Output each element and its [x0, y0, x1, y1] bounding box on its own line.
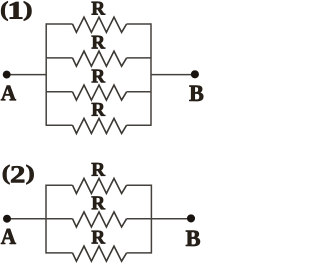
left bus wire (circuit 2): [45, 185, 47, 254]
label R branch 4 (circuit 1): [92, 103, 106, 116]
label node B (circuit 2): [186, 231, 200, 246]
wire branch 3 left lead (circuit 2): [46, 252, 73, 254]
resistor R branch 3 (circuit 1): [73, 85, 127, 100]
wire branch 3 right lead (circuit 1): [127, 91, 151, 93]
wire branch 1 right lead (circuit 2): [127, 184, 152, 186]
wire right bus to node B (circuit 1): [151, 74, 195, 76]
label R branch 2 (circuit 2): [92, 197, 106, 210]
wire node A to left bus (circuit 1): [7, 74, 47, 76]
label R branch 1 (circuit 1): [92, 2, 106, 15]
label R branch 3 (circuit 2): [92, 231, 106, 244]
wire branch 1 right lead (circuit 1): [127, 23, 151, 25]
label (2): [3, 165, 10, 184]
wire branch 4 right lead (circuit 1): [127, 124, 151, 126]
wire branch 1 left lead (circuit 1): [46, 23, 72, 25]
resistor R branch 2 (circuit 2): [73, 212, 127, 227]
node B terminal dot (circuit 1): [191, 70, 199, 78]
wire branch 3 right lead (circuit 2): [127, 252, 152, 254]
label node A (circuit 2): [1, 229, 16, 244]
label R branch 1 (circuit 2): [92, 163, 106, 176]
left bus wire (circuit 1): [45, 23, 47, 126]
label node A (circuit 1): [1, 86, 16, 101]
wire branch 2 right lead (circuit 2): [127, 218, 191, 220]
node A terminal dot (circuit 1): [3, 71, 11, 79]
right bus wire (circuit 2): [150, 185, 152, 254]
right bus wire (circuit 1): [150, 23, 152, 126]
label node B (circuit 1): [189, 86, 203, 101]
wire branch 2 left lead (circuit 1): [46, 57, 72, 59]
wire branch 4 left lead (circuit 1): [46, 124, 72, 126]
resistor R branch 1 (circuit 1): [73, 17, 127, 32]
resistor R branch 1 (circuit 2): [73, 178, 127, 193]
node A terminal dot (circuit 2): [3, 215, 11, 223]
label R branch 2 (circuit 1): [92, 36, 106, 49]
wire branch 2 left lead (circuit 2): [7, 218, 73, 220]
wire branch 3 left lead (circuit 1): [46, 91, 72, 93]
wire branch 2 right lead (circuit 1): [127, 57, 151, 59]
resistor R branch 2 (circuit 1): [73, 51, 127, 66]
resistor R branch 3 (circuit 2): [73, 246, 127, 261]
label (1): [1, 1, 8, 20]
label R branch 3 (circuit 1): [92, 70, 106, 83]
wire branch 1 left lead (circuit 2): [46, 184, 73, 186]
node B terminal dot (circuit 2): [187, 214, 195, 222]
resistor R branch 4 (circuit 1): [73, 118, 127, 133]
